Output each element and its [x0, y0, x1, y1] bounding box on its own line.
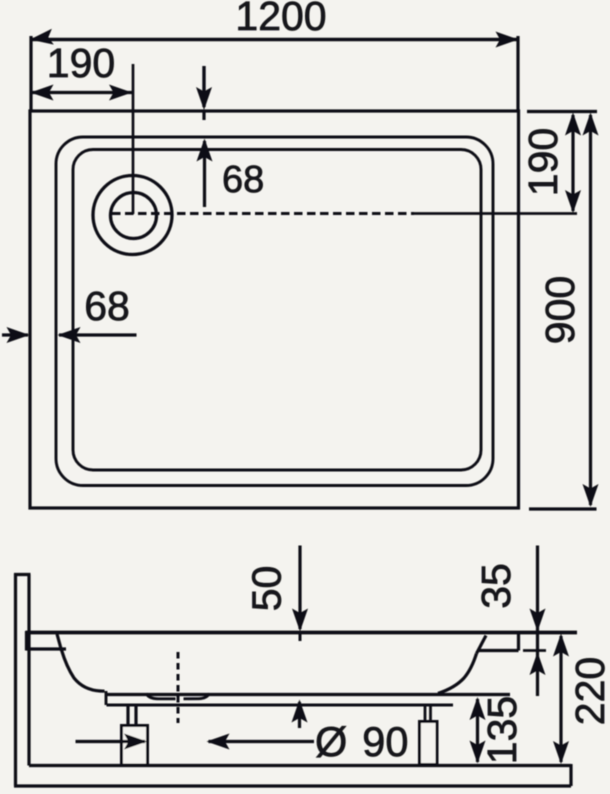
- arrow d90 pointing right: [124, 734, 147, 750]
- wall outer line: [14, 574, 17, 787]
- arrow 220 up: [553, 634, 569, 657]
- rim underside left: [26, 647, 66, 650]
- rim left inner slant: [57, 634, 62, 651]
- floor right cap: [569, 764, 572, 786]
- rim right cap: [517, 631, 520, 651]
- arrow 190 right down: [565, 190, 581, 213]
- dimension 190 right top extension: [527, 110, 597, 113]
- rim right inner slant: [477, 636, 487, 654]
- drain center line solid extension: [414, 212, 577, 215]
- arrow 190 top right: [109, 85, 132, 101]
- wall inner line: [27, 575, 30, 766]
- dimension 1200 right extension: [516, 36, 519, 110]
- arrow 1200 right: [496, 32, 519, 48]
- dimension diameter 90 right shaft: [209, 740, 315, 743]
- svg-text:220: 220: [567, 657, 610, 725]
- arrow d90 pointing left: [207, 734, 230, 750]
- rim left cap: [25, 631, 28, 651]
- drain dashed center line side view: [177, 652, 180, 723]
- tray rim top line: [26, 631, 578, 635]
- arrow 50 down: [292, 609, 308, 632]
- arrow 190 top left: [31, 85, 54, 101]
- arrow 220 down: [553, 741, 569, 764]
- drain center dashed line: [112, 212, 414, 215]
- arrow 900 up: [583, 113, 599, 136]
- arrow 50 up (at tray bottom): [292, 700, 308, 723]
- arrow 68 left pointing right: [7, 327, 30, 343]
- wall top cap: [14, 573, 31, 576]
- tray outer rectangle: [30, 111, 519, 508]
- rim underside right: [479, 649, 519, 652]
- right leg stem: [424, 705, 427, 723]
- drain recess lens: [146, 694, 176, 699]
- svg-text:Ø 90: Ø 90: [315, 718, 408, 765]
- left leg stem: [126, 705, 129, 728]
- svg-text:190: 190: [47, 40, 115, 86]
- svg-text:68: 68: [222, 159, 264, 201]
- drain outer circle: [93, 176, 172, 255]
- drain center vertical line: [132, 64, 135, 214]
- tray bottom line: [107, 693, 511, 696]
- tray basin floor rounded rect (inner line of pair): [73, 150, 481, 471]
- arrow 68 left pointing left: [58, 327, 81, 343]
- svg-text:1200: 1200: [235, 0, 326, 39]
- dimension 68 left line inside: [59, 333, 137, 336]
- tray left slope: [62, 650, 105, 691]
- dimension 50 lower shaft: [298, 702, 301, 728]
- dimension 35 upper shaft: [536, 546, 539, 697]
- dimension diameter 90 left shaft: [76, 740, 146, 743]
- arrow 135 up: [470, 697, 486, 720]
- dimension 68 top lower shaft: [203, 141, 206, 207]
- dimension 190 top line: [31, 91, 132, 94]
- dimension 135 line: [476, 699, 479, 762]
- dimension 900 bottom extension: [529, 507, 597, 510]
- dimension 220 line: [559, 636, 562, 762]
- arrow 190 right up: [565, 113, 581, 136]
- svg-text:35: 35: [473, 563, 519, 609]
- arrow 135 down: [470, 741, 486, 764]
- svg-text:68: 68: [84, 283, 130, 329]
- arrow 68 top up: [197, 139, 213, 162]
- arrow 35 down: [530, 609, 546, 632]
- svg-text:900: 900: [537, 276, 583, 344]
- svg-text:50: 50: [244, 566, 290, 612]
- svg-text:190: 190: [520, 128, 566, 196]
- svg-text:135: 135: [479, 696, 525, 764]
- arrow 1200 left: [29, 29, 54, 48]
- dimension 900 line: [589, 115, 592, 505]
- drain inner circle: [111, 193, 157, 239]
- arrow 68 top down: [196, 87, 212, 110]
- right leg foot: [420, 722, 438, 765]
- dimension 68 left line outside: [2, 333, 28, 336]
- dimension 35 lower extension: [523, 649, 546, 652]
- dimension 50 upper shaft: [298, 546, 301, 630]
- tray right slope: [438, 654, 477, 694]
- dimension 68 top upper shaft: [202, 66, 205, 107]
- tray rim inner rounded rect (outer line of pair): [56, 137, 493, 486]
- arrow 900 down: [583, 484, 599, 507]
- floor bottom line: [14, 784, 571, 787]
- floor top line: [29, 764, 571, 767]
- arrow 35 up: [530, 652, 546, 675]
- dimension 1200 left extension: [29, 36, 32, 110]
- left leg foot: [122, 726, 148, 766]
- dimension 190 right line: [571, 115, 574, 211]
- dimension 1200 line: [31, 38, 518, 41]
- frame top line: [107, 703, 454, 706]
- tray left step: [105, 691, 108, 705]
